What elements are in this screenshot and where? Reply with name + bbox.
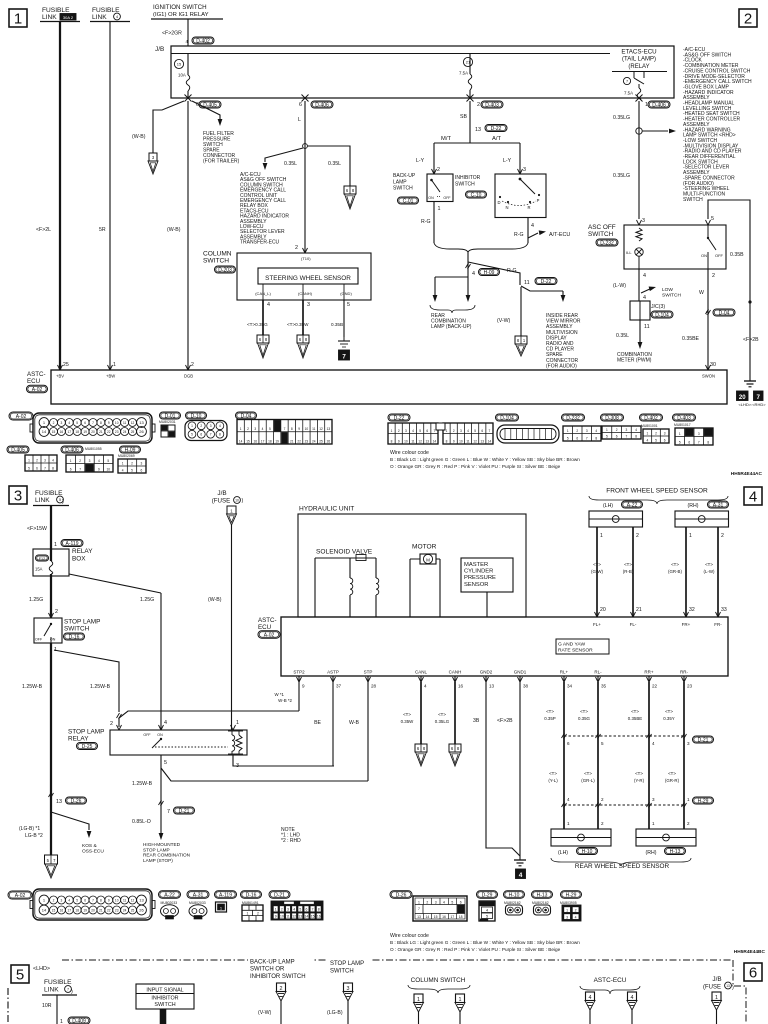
svg-text:9: 9 — [302, 684, 305, 689]
svg-text:7.5A: 7.5A — [459, 71, 468, 76]
svg-text:19: 19 — [83, 908, 87, 912]
svg-text:SENSOR: SENSOR — [464, 582, 488, 588]
svg-text:RR+: RR+ — [644, 670, 653, 675]
svg-text:2: 2 — [247, 427, 249, 431]
svg-text:25: 25 — [63, 362, 69, 368]
svg-text:MASTER: MASTER — [464, 562, 488, 568]
svg-text:37: 37 — [336, 684, 342, 689]
svg-text:R-G: R-G — [421, 219, 431, 225]
svg-text:4: 4 — [122, 468, 124, 472]
svg-text:LINK: LINK — [92, 14, 107, 21]
svg-text:13: 13 — [726, 984, 730, 988]
svg-text:2: 2 — [655, 431, 657, 435]
svg-text:<T>: <T> — [438, 712, 446, 717]
svg-text:16: 16 — [60, 908, 64, 912]
svg-text:16: 16 — [253, 439, 257, 443]
svg-text:2: 2 — [744, 11, 752, 28]
svg-text:7: 7 — [44, 466, 46, 470]
svg-text:24: 24 — [312, 439, 316, 443]
svg-text:D-22: D-22 — [491, 126, 502, 132]
svg-text:INHIBITOR: INHIBITOR — [455, 175, 481, 181]
svg-text:B : Black LG : Light green: B : Black LG : Light green G : Green L :… — [390, 940, 580, 945]
svg-text:1: 1 — [122, 461, 124, 465]
svg-text:A-02: A-02 — [15, 893, 26, 899]
svg-text:O : Orange GR : Grey R :: O : Orange GR : Grey R : Red P : Pink V … — [390, 947, 561, 952]
svg-text:13: 13 — [481, 439, 485, 443]
svg-text:B : Black LG : Light green: B : Black LG : Light green G : Green L :… — [390, 457, 580, 462]
svg-text:ON: ON — [701, 253, 707, 258]
svg-text:16: 16 — [317, 915, 321, 919]
svg-text:PRESSURE: PRESSURE — [464, 575, 496, 581]
svg-text:(LH): (LH) — [558, 850, 568, 856]
svg-text:3: 3 — [61, 898, 63, 902]
svg-text:SWITCH OR: SWITCH OR — [250, 967, 285, 973]
svg-text:8: 8 — [318, 908, 320, 912]
svg-text:(RH): (RH) — [688, 503, 699, 509]
svg-text:6: 6 — [140, 468, 142, 472]
svg-text:2: 2 — [721, 533, 724, 539]
svg-text:3: 3 — [523, 167, 526, 173]
svg-text:<T>0.35W: <T>0.35W — [287, 322, 309, 327]
svg-text:19: 19 — [83, 430, 87, 434]
svg-text:D-308: D-308 — [605, 415, 619, 421]
svg-text:18: 18 — [75, 908, 79, 912]
svg-text:15: 15 — [52, 430, 56, 434]
svg-text:0.35W: 0.35W — [401, 719, 415, 724]
svg-text:D-409: D-409 — [72, 1018, 86, 1024]
svg-text:<T>: <T> — [403, 712, 411, 717]
svg-text:<T>: <T> — [549, 771, 557, 776]
svg-text:2: 2 — [36, 458, 38, 462]
svg-text:22: 22 — [297, 439, 301, 443]
svg-text:4: 4 — [267, 302, 270, 308]
svg-text:24: 24 — [123, 908, 127, 912]
svg-text:13: 13 — [426, 439, 430, 443]
svg-text:5: 5 — [107, 459, 109, 463]
svg-text:LINK: LINK — [42, 14, 57, 21]
svg-text:SWON: SWON — [702, 374, 715, 379]
svg-text:28: 28 — [371, 684, 377, 689]
svg-text:D-04: D-04 — [719, 310, 730, 316]
svg-text:18: 18 — [75, 430, 79, 434]
svg-text:5: 5 — [269, 427, 271, 431]
svg-text:1: 1 — [247, 912, 249, 916]
svg-text:J/B: J/B — [155, 46, 164, 53]
svg-text:RATE SENSOR: RATE SENSOR — [558, 648, 593, 654]
svg-text:15: 15 — [52, 908, 56, 912]
svg-text:D-403: D-403 — [677, 415, 691, 421]
svg-text:D-104: D-104 — [655, 312, 669, 318]
svg-text:6: 6 — [664, 438, 666, 442]
svg-text:22: 22 — [107, 430, 111, 434]
svg-text:6: 6 — [306, 908, 308, 912]
svg-text:5R: 5R — [99, 227, 106, 233]
svg-text:4: 4 — [486, 909, 488, 913]
svg-text:4: 4 — [412, 429, 414, 433]
svg-text:4: 4 — [595, 429, 597, 433]
svg-text:SWITCH: SWITCH — [64, 626, 90, 633]
svg-text:6: 6 — [688, 440, 690, 444]
svg-text:6: 6 — [36, 466, 38, 470]
svg-text:OSS-ECU: OSS-ECU — [82, 848, 104, 854]
svg-text:4: 4 — [443, 901, 445, 905]
svg-text:10A: 10A — [178, 73, 186, 78]
svg-text:MU802162: MU802162 — [532, 901, 549, 905]
svg-text:<T>: <T> — [665, 709, 673, 714]
svg-text:12: 12 — [473, 439, 477, 443]
svg-text:OFF: OFF — [35, 638, 43, 642]
svg-text:CANL: CANL — [415, 670, 428, 675]
svg-text:RELAY: RELAY — [68, 736, 89, 743]
svg-text:H-09: H-09 — [125, 447, 136, 453]
svg-text:2: 2 — [53, 898, 55, 902]
svg-text:OFF: OFF — [715, 253, 724, 258]
svg-text:A/T-ECU: A/T-ECU — [549, 232, 570, 238]
svg-text:16: 16 — [458, 684, 464, 689]
svg-text:1: 1 — [646, 431, 648, 435]
svg-text:MU803905: MU803905 — [560, 901, 577, 905]
svg-text:2: 2 — [575, 908, 577, 912]
svg-text:L-Y: L-Y — [416, 158, 425, 164]
svg-text:(L-W): (L-W) — [613, 283, 626, 289]
svg-text:1: 1 — [600, 533, 603, 539]
svg-text:(GND): (GND) — [340, 291, 352, 296]
svg-text:0.35L: 0.35L — [284, 161, 297, 167]
svg-text:22: 22 — [107, 908, 111, 912]
svg-text:SWITCH: SWITCH — [455, 181, 475, 187]
svg-text:A-02: A-02 — [16, 414, 27, 420]
svg-text:(FUSE: (FUSE — [703, 985, 721, 991]
svg-text:HH5R4E44BC: HH5R4E44BC — [734, 949, 766, 955]
svg-text:<F>2B: <F>2B — [743, 337, 759, 343]
svg-text:1: 1 — [28, 458, 30, 462]
svg-text:5: 5 — [706, 311, 709, 317]
svg-text:COLUMN: COLUMN — [203, 251, 232, 258]
svg-text:<T>: <T> — [635, 771, 643, 776]
svg-text:5: 5 — [76, 898, 78, 902]
svg-text:2: 2 — [295, 245, 298, 251]
svg-text:ASTC-: ASTC- — [27, 371, 46, 378]
svg-text:ASC OFF: ASC OFF — [588, 224, 616, 231]
svg-text:0.35LG: 0.35LG — [613, 173, 630, 179]
svg-text:1: 1 — [191, 424, 193, 428]
svg-text:3: 3 — [687, 741, 690, 746]
svg-text:MU802069: MU802069 — [118, 454, 135, 458]
svg-text:4: 4 — [185, 39, 188, 44]
svg-text:13: 13 — [139, 420, 144, 425]
svg-text:DGB: DGB — [184, 374, 193, 379]
svg-text:1: 1 — [236, 720, 239, 726]
svg-text:25: 25 — [131, 430, 135, 434]
svg-text:23: 23 — [305, 439, 309, 443]
svg-text:7: 7 — [757, 394, 761, 401]
svg-text:R-G: R-G — [514, 232, 524, 238]
svg-text:17: 17 — [450, 915, 454, 919]
svg-text:STOP LAMP: STOP LAMP — [68, 729, 104, 736]
svg-text:F12: F12 — [39, 557, 46, 561]
svg-text:6: 6 — [616, 434, 618, 438]
svg-text:KOS &: KOS & — [82, 843, 97, 849]
svg-text:4: 4 — [68, 898, 70, 902]
svg-text:ECU: ECU — [258, 624, 271, 631]
svg-text:8: 8 — [595, 436, 597, 440]
svg-text:4: 4 — [424, 684, 427, 689]
svg-text:6: 6 — [84, 421, 86, 425]
svg-text:1: 1 — [606, 428, 608, 432]
svg-text:5: 5 — [164, 760, 167, 766]
svg-text:H-13: H-13 — [670, 849, 681, 855]
svg-text:SWITCH: SWITCH — [393, 186, 413, 192]
svg-text:6: 6 — [576, 436, 578, 440]
svg-text:): ) — [732, 985, 734, 991]
svg-text:BOX: BOX — [72, 556, 86, 563]
svg-text:0.35L: 0.35L — [328, 161, 341, 167]
svg-text:13: 13 — [489, 684, 495, 689]
svg-text:H-09: H-09 — [484, 270, 495, 276]
svg-text:4: 4 — [98, 459, 100, 463]
svg-text:30: 30 — [710, 362, 716, 368]
svg-text:7: 7 — [489, 429, 491, 433]
svg-text:H-10: H-10 — [582, 849, 593, 855]
svg-text:8: 8 — [291, 427, 293, 431]
svg-text:7: 7 — [210, 433, 212, 437]
svg-text:13: 13 — [56, 799, 62, 805]
svg-text:5: 5 — [347, 302, 350, 308]
svg-text:26: 26 — [139, 429, 144, 434]
svg-text:5: 5 — [299, 908, 301, 912]
svg-text:23: 23 — [115, 430, 119, 434]
svg-text:INHIBITOR SWITCH: INHIBITOR SWITCH — [250, 974, 306, 980]
svg-text:25: 25 — [131, 908, 135, 912]
svg-text:A-31: A-31 — [193, 892, 204, 898]
svg-text:10: 10 — [459, 439, 463, 443]
svg-text:ETACS-ECU: ETACS-ECU — [621, 49, 656, 56]
svg-text:(LG-B) *1: (LG-B) *1 — [19, 826, 40, 832]
svg-text:<T>: <T> — [705, 562, 713, 567]
svg-text:D-403: D-403 — [485, 102, 499, 108]
svg-text:(T10): (T10) — [301, 256, 311, 261]
svg-text:H-13: H-13 — [537, 892, 548, 898]
svg-text:1: 1 — [689, 533, 692, 539]
svg-text:J/B: J/B — [712, 976, 721, 983]
svg-text:1: 1 — [14, 11, 22, 28]
svg-text:Wire colour code: Wire colour code — [390, 933, 429, 939]
svg-text:1.25W-B: 1.25W-B — [90, 684, 111, 690]
svg-text:6: 6 — [200, 433, 202, 437]
svg-text:): ) — [71, 989, 73, 995]
svg-text:(Y-L): (Y-L) — [548, 778, 558, 783]
svg-text:12: 12 — [131, 421, 135, 425]
svg-text:7: 7 — [79, 467, 81, 471]
svg-text:MU801055: MU801055 — [85, 447, 102, 451]
svg-text:W: W — [699, 290, 704, 296]
svg-text:A-119: A-119 — [219, 892, 232, 898]
svg-text:2: 2 — [616, 428, 618, 432]
svg-text:HH5R4E44AC: HH5R4E44AC — [731, 471, 763, 477]
svg-text:): ) — [242, 498, 244, 504]
svg-text:ASTP: ASTP — [327, 670, 339, 675]
svg-text:D-01: D-01 — [165, 413, 176, 419]
svg-text:15: 15 — [177, 62, 182, 67]
svg-text:LINK: LINK — [44, 987, 59, 994]
svg-text:7: 7 — [312, 908, 314, 912]
svg-text:33: 33 — [721, 607, 727, 613]
svg-text:5: 5 — [59, 498, 61, 502]
svg-text:REAR COMBINATION: REAR COMBINATION — [143, 853, 190, 858]
svg-text:3: 3 — [14, 488, 22, 505]
svg-text:16: 16 — [60, 430, 64, 434]
svg-text:STOP LAMP: STOP LAMP — [330, 961, 364, 967]
svg-text:2: 2 — [281, 908, 283, 912]
svg-text:2: 2 — [280, 986, 283, 992]
svg-text:<F>2B: <F>2B — [497, 718, 513, 724]
svg-text:5: 5 — [76, 421, 78, 425]
svg-text:SWITCH: SWITCH — [330, 968, 354, 974]
svg-text:5: 5 — [606, 434, 608, 438]
svg-text:5: 5 — [655, 438, 657, 442]
svg-text:15: 15 — [434, 915, 438, 919]
svg-text:10R: 10R — [42, 1003, 52, 1009]
svg-text:LAMP (BACK-UP): LAMP (BACK-UP) — [431, 324, 472, 330]
svg-text:A-119: A-119 — [66, 541, 79, 547]
svg-text:11: 11 — [644, 324, 650, 330]
svg-text:STP2: STP2 — [293, 670, 305, 675]
svg-text:A-31: A-31 — [713, 502, 724, 508]
svg-text:1: 1 — [275, 908, 277, 912]
svg-text:10: 10 — [280, 915, 284, 919]
svg-text:3B: 3B — [473, 718, 480, 724]
svg-text:3: 3 — [664, 431, 666, 435]
svg-text:BE: BE — [314, 720, 321, 726]
svg-text:*2 : RHD: *2 : RHD — [281, 838, 301, 844]
svg-text:(Y-R): (Y-R) — [634, 778, 645, 783]
svg-text:<T>: <T> — [671, 562, 679, 567]
svg-text:6: 6 — [70, 467, 72, 471]
svg-text:7: 7 — [92, 898, 94, 902]
svg-text:5: 5 — [131, 468, 133, 472]
svg-text:(LG-B): (LG-B) — [327, 1010, 343, 1016]
svg-text:(GR-R): (GR-R) — [665, 778, 680, 783]
svg-text:<T>: <T> — [546, 709, 554, 714]
svg-text:14: 14 — [42, 429, 47, 434]
svg-text:4: 4 — [749, 489, 757, 506]
svg-text:SWITCH: SWITCH — [683, 197, 703, 203]
svg-text:D-21: D-21 — [274, 892, 285, 898]
svg-text:7.5A: 7.5A — [624, 91, 633, 96]
svg-text:22: 22 — [652, 684, 658, 689]
svg-text:Wire colour code: Wire colour code — [390, 450, 429, 456]
svg-text:0.35BE: 0.35BE — [682, 336, 700, 342]
svg-text:5: 5 — [601, 741, 604, 746]
svg-text:(TAIL LAMP): (TAIL LAMP) — [622, 57, 656, 63]
svg-text:FL-: FL- — [630, 622, 637, 627]
svg-text:4: 4 — [531, 223, 534, 229]
svg-text:W-B *2: W-B *2 — [278, 698, 292, 703]
svg-text:D-406: D-406 — [315, 102, 329, 108]
svg-text:9: 9 — [108, 421, 110, 425]
svg-text:15: 15 — [246, 439, 250, 443]
svg-text:D-21: D-21 — [179, 808, 190, 814]
svg-text:10: 10 — [115, 421, 119, 425]
svg-text:<F>2L: <F>2L — [36, 227, 51, 233]
svg-text:13: 13 — [417, 915, 421, 919]
svg-text:<T>0.35G: <T>0.35G — [247, 322, 268, 327]
svg-text:J/B: J/B — [217, 490, 226, 497]
svg-text:8: 8 — [219, 433, 221, 437]
svg-text:C-01: C-01 — [403, 198, 414, 204]
svg-text:8: 8 — [707, 440, 709, 444]
svg-text:8: 8 — [100, 421, 102, 425]
svg-text:(W-B): (W-B) — [132, 134, 146, 140]
svg-text:CYLINDER: CYLINDER — [464, 569, 493, 575]
svg-text:2: 2 — [131, 461, 133, 465]
svg-text:8: 8 — [52, 466, 54, 470]
svg-text:+BW: +BW — [106, 374, 115, 379]
svg-text:25: 25 — [319, 439, 323, 443]
svg-text:OFF: OFF — [143, 733, 151, 737]
svg-text:7: 7 — [626, 80, 628, 84]
svg-text:5: 5 — [16, 967, 24, 984]
svg-text:4: 4 — [467, 429, 469, 433]
svg-text:3: 3 — [254, 427, 256, 431]
svg-text:LG-B *2: LG-B *2 — [25, 833, 43, 839]
svg-text:1: 1 — [240, 427, 242, 431]
svg-text:0.35LG: 0.35LG — [613, 115, 630, 121]
svg-text:D-10: D-10 — [191, 413, 202, 419]
svg-text:16: 16 — [442, 915, 446, 919]
svg-text:STOP LAMP: STOP LAMP — [64, 619, 100, 626]
svg-text:2: 2 — [53, 421, 55, 425]
svg-text:7: 7 — [342, 353, 346, 360]
svg-text:5: 5 — [191, 433, 193, 437]
svg-text:G AND YAW: G AND YAW — [558, 642, 585, 648]
svg-text:2: 2 — [437, 167, 440, 173]
svg-text:A-22: A-22 — [627, 502, 638, 508]
svg-text:3: 3 — [642, 218, 645, 224]
svg-text:7: 7 — [698, 440, 700, 444]
svg-text:1: 1 — [70, 459, 72, 463]
svg-text:3: 3 — [435, 901, 437, 905]
svg-text:D-203: D-203 — [218, 267, 232, 273]
svg-text:1.25W-B: 1.25W-B — [22, 684, 43, 690]
svg-text:MU801017: MU801017 — [674, 423, 691, 427]
svg-text:(W-B): (W-B) — [167, 227, 181, 233]
svg-text:3: 3 — [566, 915, 568, 919]
svg-text:FR+: FR+ — [682, 622, 691, 627]
svg-text:14: 14 — [433, 439, 437, 443]
svg-text:J/C(3): J/C(3) — [651, 304, 665, 310]
svg-text:1: 1 — [566, 908, 568, 912]
svg-text:12: 12 — [292, 915, 296, 919]
svg-text:M/T: M/T — [441, 136, 451, 142]
svg-text:3: 3 — [61, 421, 63, 425]
svg-text:1.25G: 1.25G — [29, 597, 43, 603]
svg-text:2: 2 — [601, 797, 604, 802]
svg-text:D-16: D-16 — [246, 892, 257, 898]
svg-text:(GR-L): (GR-L) — [581, 778, 595, 783]
svg-text:A-22: A-22 — [164, 892, 175, 898]
svg-text:5: 5 — [28, 466, 30, 470]
svg-text:2: 2 — [712, 273, 715, 279]
svg-text:5: 5 — [567, 436, 569, 440]
svg-text:D-406: D-406 — [65, 447, 79, 453]
svg-text:A-02: A-02 — [264, 632, 275, 638]
svg-text:(FOR AUDIO): (FOR AUDIO) — [546, 363, 577, 369]
svg-text:(R-B): (R-B) — [623, 569, 634, 574]
svg-text:H-29: H-29 — [566, 892, 577, 898]
svg-text:11: 11 — [411, 439, 415, 443]
svg-text:5: 5 — [474, 429, 476, 433]
